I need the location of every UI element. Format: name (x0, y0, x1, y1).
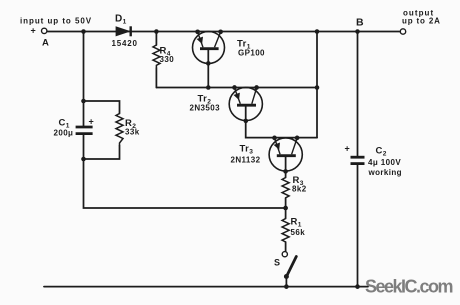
svg-text:56k: 56k (291, 228, 306, 237)
node dot Tr3 collector (295, 136, 300, 141)
svg-text:200μ: 200μ (54, 129, 74, 138)
svg-text:working: working (368, 168, 402, 177)
wire Tr1 base lead (207, 50, 209, 88)
node dot R3 R1 junction (283, 206, 288, 211)
switch S contact circle (282, 252, 287, 257)
wire R2 branch bottom (84, 146, 120, 160)
capacitor C2 4u 100V (351, 157, 365, 163)
wire left vertical upper (83, 32, 85, 126)
node dot switch bottom rail (284, 284, 289, 289)
svg-text:15420: 15420 (112, 39, 138, 48)
svg-text:D1: D1 (115, 14, 127, 26)
resistor R3 8k2 (282, 178, 289, 199)
wire R3 bottom stub (285, 199, 287, 209)
wire C2 vertical lower (357, 165, 359, 287)
wire R1 top stub (285, 208, 287, 219)
svg-text:4μ 100V: 4μ 100V (368, 158, 401, 167)
wire right vertical x317 (316, 32, 318, 138)
wire switch to bottom rail (285, 277, 287, 287)
node dot R2 top (81, 99, 86, 104)
node dot Tr1 base mid rail (206, 85, 211, 90)
diode D1 15420 (116, 26, 131, 36)
node dot R4 top (154, 29, 159, 34)
terminal input (42, 28, 47, 33)
resistor R4 330 (153, 45, 160, 68)
node dot B (355, 29, 360, 34)
svg-text:2N3503: 2N3503 (190, 104, 221, 113)
node dot switch pivot (284, 274, 289, 279)
node dot R2 bottom (81, 157, 86, 162)
node dot Tr1 base bottom (206, 61, 211, 66)
svg-text:330: 330 (160, 55, 175, 64)
svg-text:SeekIC.com: SeekIC.com (365, 277, 453, 297)
svg-text:B: B (356, 17, 364, 29)
node dot Tr3 base bottom (283, 169, 288, 174)
svg-text:+: + (31, 25, 36, 35)
node dot Tr2 emitter (232, 85, 237, 90)
node dot Tr3 emitter (272, 136, 277, 141)
transistor Tr1 GP100 (193, 32, 225, 64)
node dot C2 bottom rail (355, 284, 360, 289)
wire bottom rail (44, 286, 368, 288)
node dot x317 mid (315, 85, 320, 90)
transistor Tr2 2N3503 (229, 87, 262, 120)
switch S blade (287, 257, 297, 277)
node dot Tr1 collector (218, 29, 223, 34)
svg-text:33k: 33k (125, 128, 140, 137)
svg-text:input up to 50V: input up to 50V (20, 16, 92, 25)
svg-text:+: + (345, 144, 350, 154)
svg-text:2N1132: 2N1132 (231, 156, 261, 165)
svg-text:C2: C2 (376, 146, 387, 158)
svg-text:S: S (274, 257, 280, 267)
wire Tr2 base lead and rail y137 (246, 107, 317, 138)
svg-text:up to 2A: up to 2A (402, 17, 441, 26)
wire Tr3 base lead (285, 157, 287, 178)
wire top rail (47, 31, 400, 33)
wire R2 branch top (84, 101, 120, 114)
wire mid rail y87 (156, 87, 317, 89)
svg-text:8k2: 8k2 (292, 185, 307, 194)
resistor R1 56k (282, 219, 289, 243)
svg-text:Tr3: Tr3 (240, 144, 254, 156)
node dot Tr2 collector (254, 85, 259, 90)
node dot left top (81, 29, 86, 34)
capacitor C1 200u (76, 127, 93, 134)
wire C2 vertical upper (357, 32, 359, 156)
resistor R2 33k (116, 114, 123, 146)
wire left vertical lower and bottom horizontal to R3/R1 junction (84, 135, 286, 208)
wire R4 top stub (155, 32, 157, 46)
node dot Tr2 base bottom (244, 119, 249, 124)
terminal output (400, 29, 405, 34)
transistor Tr3 2N1132 (269, 138, 302, 171)
svg-text:R1: R1 (291, 217, 302, 229)
wire R4 bottom to mid rail (155, 68, 157, 88)
node dot Tr1 emitter (195, 29, 200, 34)
svg-text:+: + (89, 117, 94, 127)
svg-text:GP100: GP100 (238, 49, 265, 58)
svg-text:A: A (42, 38, 49, 49)
node dot x317 top (315, 29, 320, 34)
wire R1 bottom stub (285, 242, 287, 252)
